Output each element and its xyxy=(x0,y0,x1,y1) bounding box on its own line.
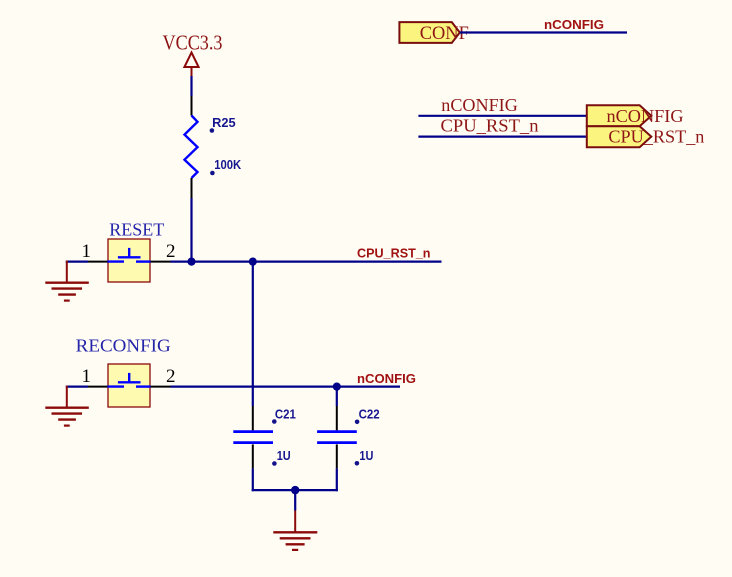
wire RECONFIG pin2 to nCONFIG xyxy=(171,386,401,388)
wire to port CPU_RST_n xyxy=(418,136,586,138)
wire node A to CPU_RST_n end xyxy=(171,261,442,263)
wire RECONFIG pin1 to ground xyxy=(66,386,88,388)
wire node C down to C22 xyxy=(336,387,338,406)
junction node A xyxy=(187,258,195,266)
ground GND1 xyxy=(45,261,89,301)
svg-text:nCONFIG: nCONFIG xyxy=(544,17,604,32)
capacitor C21 xyxy=(233,406,296,468)
junction node C xyxy=(333,383,341,391)
svg-text:2: 2 xyxy=(166,241,176,262)
svg-text:nCONFIG: nCONFIG xyxy=(441,95,518,115)
port CPU_RST_n xyxy=(587,126,705,147)
wire R25 to node A xyxy=(190,198,192,263)
svg-text:C22: C22 xyxy=(359,408,380,422)
svg-text:RESET: RESET xyxy=(109,219,164,239)
svg-text:CPU_RST_n: CPU_RST_n xyxy=(357,245,431,260)
svg-text:2: 2 xyxy=(166,366,176,387)
junction node B xyxy=(249,258,257,266)
switch S1 RESET xyxy=(81,219,175,282)
wire port CONF xyxy=(460,31,627,33)
svg-text:C21: C21 xyxy=(275,407,296,421)
ground GND2 xyxy=(45,386,89,426)
ground GND3 xyxy=(273,511,317,550)
wire bottom bus xyxy=(252,489,338,491)
svg-text:1U: 1U xyxy=(277,449,291,463)
capacitor C22 xyxy=(317,406,380,468)
svg-text:nCONFIG: nCONFIG xyxy=(357,371,416,386)
svg-text:nCONFIG: nCONFIG xyxy=(607,106,684,126)
svg-text:1: 1 xyxy=(81,366,91,387)
wire to port nCONFIG xyxy=(418,115,586,117)
svg-text:RECONFIG: RECONFIG xyxy=(76,335,171,355)
svg-text:1U: 1U xyxy=(359,449,373,463)
switch S2 RECONFIG xyxy=(76,335,176,407)
resistor R25 xyxy=(185,96,242,198)
svg-text:1: 1 xyxy=(81,241,91,262)
svg-text:VCC3.3: VCC3.3 xyxy=(163,31,223,55)
wire C22 bottom xyxy=(336,468,338,491)
wire node B down to C21 xyxy=(252,262,254,406)
svg-text:CONF: CONF xyxy=(420,24,469,44)
svg-text:CPU_RST_n: CPU_RST_n xyxy=(441,115,539,135)
power flag VCC3.3 xyxy=(163,31,223,76)
wire C21 bottom xyxy=(252,468,254,491)
wire VCC to R25 xyxy=(190,76,192,96)
junction node D xyxy=(291,486,299,494)
wire node D to ground xyxy=(294,490,296,510)
wire RESET pin1 to ground xyxy=(66,261,88,263)
svg-text:100K: 100K xyxy=(214,158,241,172)
svg-text:R25: R25 xyxy=(212,116,236,130)
svg-text:CPU_RST_n: CPU_RST_n xyxy=(608,127,704,147)
port CONF xyxy=(399,22,468,44)
port nCONFIG xyxy=(587,105,684,126)
